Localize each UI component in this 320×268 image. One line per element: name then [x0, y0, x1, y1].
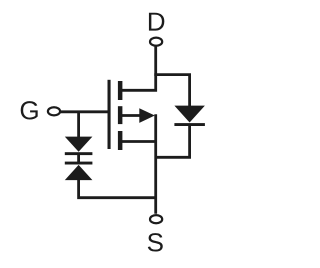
wire: zener chain middle connector: [77, 155, 80, 163]
diode D1 (body diode) anode triangle: [174, 106, 205, 123]
terminal D circle: [150, 38, 162, 46]
wire: source rail from body line down to S terminal: [154, 114, 157, 214]
node label D: [149, 13, 164, 31]
wire: MOSFET body horizontal: [120, 114, 149, 117]
wire: MOSFET source horizontal: [120, 140, 156, 143]
zener Z2 cathode bar: [65, 162, 93, 165]
wire: zener chain top drop: [77, 112, 80, 137]
node label S: [148, 233, 163, 251]
wire: gate rail from G terminal: [60, 110, 109, 113]
node label G: [21, 101, 38, 119]
transistor Q1 body arrow: [139, 108, 155, 123]
diode D1 (body diode) cathode bar: [174, 123, 205, 126]
transistor Q1 drain channel bar: [118, 81, 123, 100]
wire: lower branch from body diode to source rail: [156, 125, 190, 157]
transistor Q1 source channel bar: [118, 131, 123, 150]
terminal G circle: [48, 107, 60, 115]
transistor Q1 body channel bar: [118, 106, 123, 124]
zener Z2 (lower gate protection) anode triangle: [65, 165, 93, 180]
zener Z1 cathode bar: [65, 152, 93, 155]
zener Z1 (upper gate protection) anode triangle: [65, 137, 93, 152]
wire: top branch from drain lead to body diode: [154, 75, 189, 107]
transistor Q1 gate line: [108, 80, 111, 149]
terminal S circle: [150, 215, 162, 223]
wire: zener chain bottom drop and branch to rail: [79, 180, 156, 198]
wire: drain lead from D terminal down and left into drain bar: [120, 46, 156, 90]
